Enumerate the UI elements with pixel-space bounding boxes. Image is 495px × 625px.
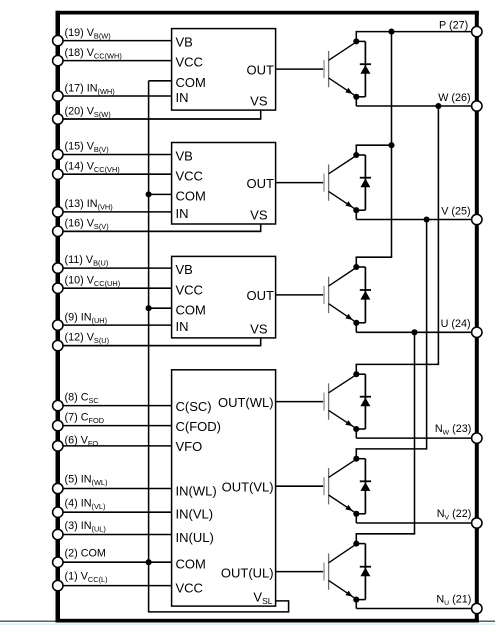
junction P bus / V-phase collector	[388, 142, 394, 148]
diode D4 (freewheel) of Q4 WL	[356, 374, 371, 429]
node collector of Q1 WH	[353, 38, 359, 44]
svg-text:NU (21): NU (21)	[436, 594, 471, 607]
pin CSC pin 8 with wire and label	[53, 391, 172, 410]
wire emitter of Q5 VL to rail	[355, 514, 357, 523]
pin U pin 24 with label	[441, 318, 482, 337]
svg-text:OUT(UL): OUT(UL)	[221, 566, 274, 581]
pin V pin 25 with label	[441, 205, 482, 224]
wire collector of Q3 UH riser	[356, 257, 392, 267]
svg-text:IN(UL): IN(UL)	[176, 530, 214, 545]
wire emitter of Q6 UL to rail	[355, 600, 357, 609]
pin CFOD pin 7 with wire and label	[53, 411, 172, 430]
pin IN(WH) pin 17 with wire and label	[53, 83, 172, 102]
wire P rail	[356, 31, 472, 33]
svg-text:COM: COM	[176, 189, 206, 204]
pin P pin 27 with label	[439, 20, 482, 37]
wire collector of Q2 VH riser	[356, 145, 392, 155]
wire OUT to gate of Q4 WL	[276, 401, 325, 403]
wire V rail	[356, 219, 472, 221]
wire COM of U1 (W-phase high-side driver) to COM bus	[149, 80, 172, 82]
driver block U4 (low-side driver)	[172, 370, 276, 606]
pin IN(UH) pin 9 with wire and label	[53, 311, 172, 330]
wire NV rail	[356, 522, 472, 524]
wire W drop to Q4 collector	[437, 106, 439, 364]
pin VB(V) pin 15 with wire and label	[53, 141, 172, 160]
svg-text:VCC: VCC	[176, 282, 203, 297]
node emitter of Q6 UL	[353, 597, 359, 603]
node emitter of Q3 UH	[353, 320, 359, 326]
svg-text:NV (22): NV (22)	[437, 508, 472, 521]
wire emitter of Q1 WH to rail	[355, 97, 357, 106]
transistor Q3 UH (IGBT)	[323, 268, 356, 323]
svg-text:VS: VS	[250, 94, 268, 109]
node emitter of Q1 WH	[353, 94, 359, 100]
wire emitter of Q4 WL to rail	[355, 429, 357, 438]
svg-text:IN(VL): IN(VL)	[176, 506, 214, 521]
pin VCC(VH) pin 14 with wire and label	[53, 161, 172, 180]
svg-text:P (27): P (27)	[439, 20, 468, 32]
svg-text:C(SC): C(SC)	[176, 399, 212, 414]
svg-text:VFO: VFO	[176, 439, 203, 454]
pin COM pin 2 with wire and label	[53, 548, 172, 568]
diode D5 (freewheel) of Q5 VL	[356, 459, 371, 514]
transistor Q1 WH (IGBT)	[323, 42, 356, 97]
svg-text:OUT: OUT	[247, 176, 275, 191]
driver block U1 (W-phase high-side driver)	[172, 29, 276, 111]
diode D1 (freewheel) of Q1 WH	[356, 41, 371, 96]
svg-text:C(FOD): C(FOD)	[176, 419, 222, 434]
diode D2 (freewheel) of Q2 VH	[356, 155, 371, 210]
svg-text:COM: COM	[176, 556, 206, 571]
wire NU rail	[356, 608, 472, 610]
svg-text:(2) COM: (2) COM	[65, 548, 106, 560]
svg-text:COM: COM	[176, 75, 206, 90]
wire collector of Q5 VL riser	[356, 449, 427, 459]
transistor Q4 WL (IGBT)	[323, 375, 356, 429]
svg-text:V (25): V (25)	[441, 205, 470, 217]
pin VCC(L) pin 1 with wire and label	[53, 570, 172, 590]
wire OUT to gate of Q6 UL	[276, 571, 325, 573]
svg-text:OUT: OUT	[247, 62, 275, 77]
node collector of Q6 UL	[353, 541, 359, 547]
wire U rail	[356, 331, 472, 333]
junction COM of U2 (V-phase high-side driver) / COM bus	[146, 191, 152, 197]
pin IN(VL) pin 4 with wire and label	[53, 498, 172, 518]
pin VS(W) pin 20 with wire and label	[53, 106, 261, 125]
junction U rail / U drop	[411, 329, 417, 335]
node collector of Q5 VL	[353, 456, 359, 462]
node collector of Q4 WL	[353, 371, 359, 377]
svg-text:VS: VS	[250, 207, 268, 222]
svg-text:VS: VS	[250, 321, 268, 336]
pin NU pin 21 with label	[436, 594, 482, 614]
svg-text:NW (23): NW (23)	[435, 423, 471, 436]
svg-text:VB: VB	[176, 35, 193, 50]
svg-text:OUT(VL): OUT(VL)	[222, 480, 274, 495]
wire W rail	[356, 105, 472, 107]
transistor Q6 UL (IGBT)	[323, 544, 356, 599]
transistor Q5 VL (IGBT)	[323, 459, 356, 513]
wire COM of U3 (U-phase high-side driver) to COM bus	[149, 307, 172, 309]
junction COM pin 2 / COM bus	[146, 559, 152, 565]
svg-text:IN: IN	[176, 319, 189, 334]
diode D6 (freewheel) of Q6 UL	[356, 544, 371, 600]
node emitter of Q4 WL	[353, 426, 359, 432]
svg-text:IN(WL): IN(WL)	[176, 483, 217, 498]
wire emitter of Q3 UH to rail	[355, 323, 357, 333]
pin VB(W) pin 19 with wire and label	[53, 27, 172, 46]
node collector of Q3 UH	[353, 264, 359, 270]
pin IN(WL) pin 5 with wire and label	[53, 474, 172, 494]
wire COM of U2 (V-phase high-side driver) to COM bus	[149, 193, 172, 195]
wire OUT to gate of Q3 UH	[276, 294, 325, 296]
pin VS(U) pin 12 with wire and label	[53, 331, 261, 350]
wire U drop to Q6 collector	[414, 332, 416, 534]
svg-text:VCC: VCC	[176, 168, 203, 183]
pin VCC(WH) pin 18 with wire and label	[53, 47, 172, 66]
wire P bus vertical	[391, 32, 393, 258]
svg-text:VB: VB	[176, 149, 193, 164]
pin NV pin 22 with label	[437, 508, 482, 528]
wire VS of U1 (W-phase high-side driver) down to VS pin wire	[58, 110, 261, 119]
svg-text:VCC: VCC	[176, 580, 203, 595]
wire VS of U3 (U-phase high-side driver) down to VS pin wire	[58, 338, 261, 346]
wire collector Q1 riser to P rail	[355, 31, 357, 42]
pin VFO pin 6 with wire and label	[53, 434, 172, 451]
junction W rail / W drop	[435, 103, 441, 109]
diode D3 (freewheel) of Q3 UH	[356, 267, 371, 323]
pin IN(UL) pin 3 with wire and label	[53, 520, 172, 540]
wire OUT to gate of Q5 VL	[276, 485, 325, 487]
junction COM of U3 (U-phase high-side driver) / COM bus	[146, 305, 152, 311]
svg-text:W (26): W (26)	[438, 92, 470, 104]
svg-text:IN: IN	[176, 206, 189, 221]
page rule (pale blue)	[0, 623, 495, 625]
wire OUT to gate of Q1 WH	[276, 68, 325, 70]
svg-text:COM: COM	[176, 302, 206, 317]
node collector of Q2 VH	[353, 152, 359, 158]
node emitter of Q2 VH	[353, 207, 359, 213]
wire collector of Q6 UL riser	[356, 534, 415, 544]
pin VCC(UH) pin 10 with wire and label	[53, 274, 172, 293]
svg-text:VCC: VCC	[176, 55, 203, 70]
wire COM bus with return to V_SL	[149, 81, 289, 612]
svg-text:IN: IN	[176, 90, 189, 105]
svg-text:VB: VB	[176, 262, 193, 277]
pin W pin 26 with label	[438, 92, 482, 111]
wire V drop to Q5 collector	[426, 220, 428, 449]
driver block U2 (V-phase high-side driver)	[172, 143, 276, 225]
svg-text:OUT: OUT	[247, 288, 275, 303]
svg-text:OUT(WL): OUT(WL)	[218, 395, 274, 410]
pin VS(V) pin 16 with wire and label	[53, 217, 261, 236]
pin NW pin 23 with label	[435, 423, 482, 443]
node emitter of Q5 VL	[353, 511, 359, 517]
wire emitter of Q2 VH to rail	[355, 210, 357, 219]
pin VB(U) pin 11 with wire and label	[53, 254, 172, 273]
transistor Q2 VH (IGBT)	[323, 156, 356, 210]
wire collector of Q4 WL riser	[356, 364, 439, 374]
wire NW rail	[356, 437, 472, 439]
wire VS of U2 (V-phase high-side driver) down to VS pin wire	[58, 224, 261, 231]
pin IN(VH) pin 13 with wire and label	[53, 198, 172, 217]
junction P rail / P bus	[388, 29, 394, 35]
svg-text:U (24): U (24)	[441, 318, 471, 330]
page rule (grey)	[0, 620, 495, 622]
wire OUT to gate of Q2 VH	[276, 182, 325, 184]
driver block U3 (U-phase high-side driver)	[172, 256, 276, 338]
junction V rail / V drop	[424, 216, 430, 222]
